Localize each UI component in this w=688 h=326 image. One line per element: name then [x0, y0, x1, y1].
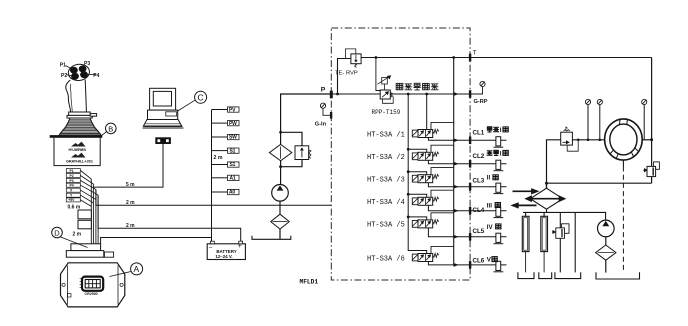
wire CL5 — [470, 236, 507, 238]
computer C monitor — [150, 88, 176, 110]
node P drop — [336, 93, 339, 96]
bellows — [69, 118, 91, 121]
wire T line — [361, 57, 651, 59]
tank (supply) — [252, 236, 291, 240]
relief valve (supply) — [295, 146, 309, 160]
collar below handle — [69, 112, 91, 115]
svg-text:TE- RVP: TE- RVP — [335, 71, 358, 77]
svg-text:B: B — [108, 124, 113, 133]
node T bus — [452, 56, 455, 59]
wire relief branch — [281, 132, 302, 146]
svg-text:MFLD1: MFLD1 — [300, 279, 319, 286]
svg-text:G-RP: G-RP — [474, 99, 488, 105]
branch connector boxes — [228, 107, 240, 195]
coupling CL5 — [494, 233, 504, 244]
svg-text:HT-S3A /5: HT-S3A /5 — [367, 222, 405, 230]
relief valve (ring circuit) — [561, 127, 580, 151]
wire TE-RVP pilot loop — [346, 49, 356, 59]
wire battery minus — [101, 238, 212, 244]
battery 12-24 V — [207, 241, 245, 259]
svg-text:PW: PW — [229, 121, 237, 127]
wire cooler to collector — [546, 209, 548, 212]
RPP spring — [391, 93, 393, 98]
computer keyboard — [143, 120, 182, 127]
svg-text:P4: P4 — [93, 73, 99, 79]
wire CL3 — [470, 186, 507, 188]
wire collector — [523, 212, 606, 220]
svg-text:P2: P2 — [61, 73, 67, 79]
RPP drain loop — [383, 97, 394, 104]
connector D flange upper — [71, 244, 101, 251]
joystick handle B — [66, 80, 87, 112]
arrow out (bottom) — [518, 204, 537, 206]
svg-text:S1: S1 — [230, 162, 236, 168]
svg-text:P: P — [321, 87, 326, 94]
leader P4 — [87, 73, 96, 75]
joystick terminal boxes — [66, 169, 80, 202]
svg-text:2 m: 2 m — [126, 223, 135, 229]
svg-text:II: II — [487, 175, 491, 182]
suction filter 2 — [596, 245, 616, 260]
button P2 — [72, 73, 79, 79]
RPP solenoid — [382, 78, 388, 85]
svg-text:CR2500: CR2500 — [85, 292, 98, 296]
label B — [106, 123, 117, 134]
controller A body — [61, 263, 125, 307]
svg-text:HT-S3A /6: HT-S3A /6 — [367, 255, 405, 263]
flange side box — [104, 252, 113, 257]
relief valve TE-RVP — [351, 54, 361, 64]
wire ring drain dashed — [622, 167, 624, 273]
svg-text:P3: P3 — [70, 179, 74, 183]
tank 3 — [555, 272, 581, 278]
svg-text:PV: PV — [229, 107, 236, 113]
svg-text:T: T — [473, 50, 477, 57]
pump 2 — [596, 220, 616, 273]
double arrow inside — [530, 198, 563, 200]
valve HT-S3A/6 — [412, 253, 439, 261]
cooler / bidirectional filter — [510, 188, 566, 209]
coupling CL6 — [494, 261, 504, 272]
wire riser to relief — [547, 140, 561, 188]
svg-text:IV: IV — [487, 224, 494, 231]
wire battery plus (2 m) — [98, 195, 241, 241]
svg-text:S1: S1 — [230, 148, 236, 154]
node ring right — [650, 138, 653, 141]
svg-text:HT-S3A /2: HT-S3A /2 — [367, 154, 405, 162]
svg-text:CL1: CL1 — [473, 130, 485, 137]
node RPP drain — [375, 56, 378, 59]
filter cartridge 1 — [522, 216, 529, 251]
computer system unit — [148, 110, 178, 119]
svg-text:HT-S3A /4: HT-S3A /4 — [367, 199, 405, 207]
svg-text:RPP-T159: RPP-T159 — [372, 109, 401, 116]
svg-text:CL3: CL3 — [473, 178, 485, 185]
port P tick — [330, 91, 333, 99]
svg-text:HT-S3A /1: HT-S3A /1 — [367, 131, 405, 139]
svg-text:HY-SERIES: HY-SERIES — [69, 148, 87, 152]
svg-text:HT-S3A /3: HT-S3A /3 — [367, 177, 405, 185]
svg-text:CL5: CL5 — [473, 228, 485, 235]
svg-text:A1: A1 — [230, 176, 236, 182]
node supply tee — [279, 131, 282, 134]
valve (drop 3) — [552, 224, 569, 238]
controller screws — [62, 283, 65, 286]
terminal fan wires — [81, 171, 99, 207]
button P1 — [71, 67, 78, 73]
wire row1 feed — [426, 94, 428, 130]
check valve (right drop) — [643, 162, 659, 177]
slew ring — [605, 119, 643, 160]
base plate — [50, 136, 102, 138]
svg-text:2 m: 2 m — [126, 200, 135, 206]
CL port lines and couplings — [470, 140, 507, 265]
svg-text:A: A — [134, 264, 140, 274]
wire bottom return — [547, 182, 652, 184]
wire row4 feed stub — [408, 194, 427, 197]
svg-text:G-In: G-In — [315, 122, 327, 128]
port T tick — [469, 54, 471, 62]
manifold boundary MFLD1 — [331, 28, 470, 280]
suction filter — [271, 214, 290, 229]
svg-text:D: D — [54, 228, 60, 237]
svg-text:CL6: CL6 — [473, 258, 485, 265]
wire CL6 — [470, 264, 507, 266]
button P3 — [79, 66, 86, 72]
label proportional reducing valve (Chinese) — [396, 83, 438, 90]
wire P internal — [331, 93, 380, 95]
coupling CL4 — [494, 207, 504, 218]
coupling CL1 — [494, 137, 504, 148]
leader P2 — [67, 74, 73, 77]
wire ring drain stub — [622, 160, 624, 166]
valve HT-S3A/5 — [412, 220, 439, 228]
logo 1 — [71, 142, 86, 147]
button P4 — [81, 72, 88, 78]
side tab — [90, 114, 96, 117]
svg-text:5 m: 5 m — [126, 182, 135, 188]
coupling CL2 — [494, 160, 504, 171]
node cooler top — [545, 182, 548, 185]
valve HT-S3A/4 — [412, 197, 439, 205]
label A — [131, 263, 143, 275]
branch lines — [212, 109, 228, 111]
port G-RP tick — [469, 90, 471, 98]
test point 2 — [597, 99, 602, 104]
svg-text:P1: P1 — [70, 169, 74, 173]
connector D flange lower — [66, 251, 104, 258]
svg-text:+5V: +5V — [68, 198, 75, 202]
tank 2 — [539, 272, 552, 278]
logo box — [54, 137, 100, 165]
wire T bus vertical — [453, 58, 455, 265]
filter cartridge 2 — [543, 212, 545, 216]
cable verticals — [91, 179, 98, 244]
wire CL2 — [470, 163, 507, 165]
RS232 connector — [156, 138, 171, 144]
label C — [195, 91, 207, 103]
pump (supply) — [272, 185, 289, 202]
arrow G-RP — [454, 92, 459, 96]
wire row5 feed stub — [408, 217, 427, 220]
svg-text:C: C — [198, 93, 204, 103]
svg-text:GRAYHILL+JS1: GRAYHILL+JS1 — [66, 160, 93, 164]
controller central connector — [82, 277, 103, 291]
svg-text:SW: SW — [229, 135, 237, 141]
test point 1 — [585, 99, 590, 104]
coupling CL3 — [494, 183, 504, 194]
svg-text:P1: P1 — [60, 63, 66, 69]
svg-text:−: − — [209, 244, 213, 251]
svg-text:I: I — [500, 150, 502, 157]
inline connector 2 — [78, 220, 91, 229]
wire joystick to manifold (2 m) — [96, 190, 331, 206]
wire relief to ring — [572, 139, 604, 141]
leader P1 — [66, 66, 72, 69]
test point 3 — [642, 99, 647, 104]
svg-text:P4: P4 — [70, 184, 74, 188]
wire TE-RVP inlet — [338, 59, 351, 95]
filter (pressure) — [269, 144, 291, 160]
inline connector 1 — [78, 210, 91, 219]
svg-text:CL4: CL4 — [473, 207, 485, 214]
svg-text:2 m: 2 m — [214, 155, 223, 161]
wire drop 4 — [574, 212, 576, 272]
logo 2 — [71, 153, 86, 158]
valve HT-S3A/2 — [412, 152, 439, 160]
branch bus — [212, 110, 228, 242]
wire P bus vertical — [408, 94, 427, 254]
svg-text:12–24 V.: 12–24 V. — [215, 254, 232, 259]
svg-text:CL2: CL2 — [473, 153, 485, 160]
wire right drop (T) — [651, 58, 653, 184]
wire CL1 — [470, 139, 507, 141]
relief pilot loop — [567, 140, 578, 151]
svg-text:+: + — [238, 243, 242, 250]
wire rect1 hang — [525, 212, 527, 216]
svg-text:P3: P3 — [84, 61, 90, 67]
test point G-RP — [480, 81, 485, 86]
wire filter to pump — [280, 161, 282, 185]
wire row3 feed stub — [408, 172, 427, 175]
valve HT-S3A/3 — [412, 175, 439, 183]
wire RPP drain — [376, 58, 380, 91]
wire ring right — [642, 139, 651, 141]
label D — [52, 227, 63, 238]
arrow in (top) — [513, 190, 533, 192]
wire CL4 — [470, 210, 507, 212]
svg-text:P2: P2 — [70, 174, 74, 178]
svg-text:A0: A0 — [229, 190, 235, 196]
svg-text:III: III — [487, 202, 492, 209]
wire P supply line — [281, 94, 332, 144]
svg-text:2 m: 2 m — [73, 232, 82, 238]
placeholder sections — [50, 63, 116, 166]
wire to tank — [279, 229, 281, 239]
wire pump to suction filter — [279, 201, 281, 214]
proportional reducing valve RPP-T159 — [378, 76, 394, 104]
tank 1 — [518, 272, 534, 278]
tank 4 — [596, 272, 640, 279]
svg-text:I: I — [500, 127, 502, 134]
joystick knob — [67, 63, 90, 82]
wire drop 3 — [559, 212, 561, 272]
wire row2 feed stub — [408, 149, 427, 152]
valve HT-S3A/1 — [412, 129, 439, 137]
wire computer to joystick cable (5 m) — [93, 144, 163, 188]
test point G-In — [320, 103, 325, 108]
